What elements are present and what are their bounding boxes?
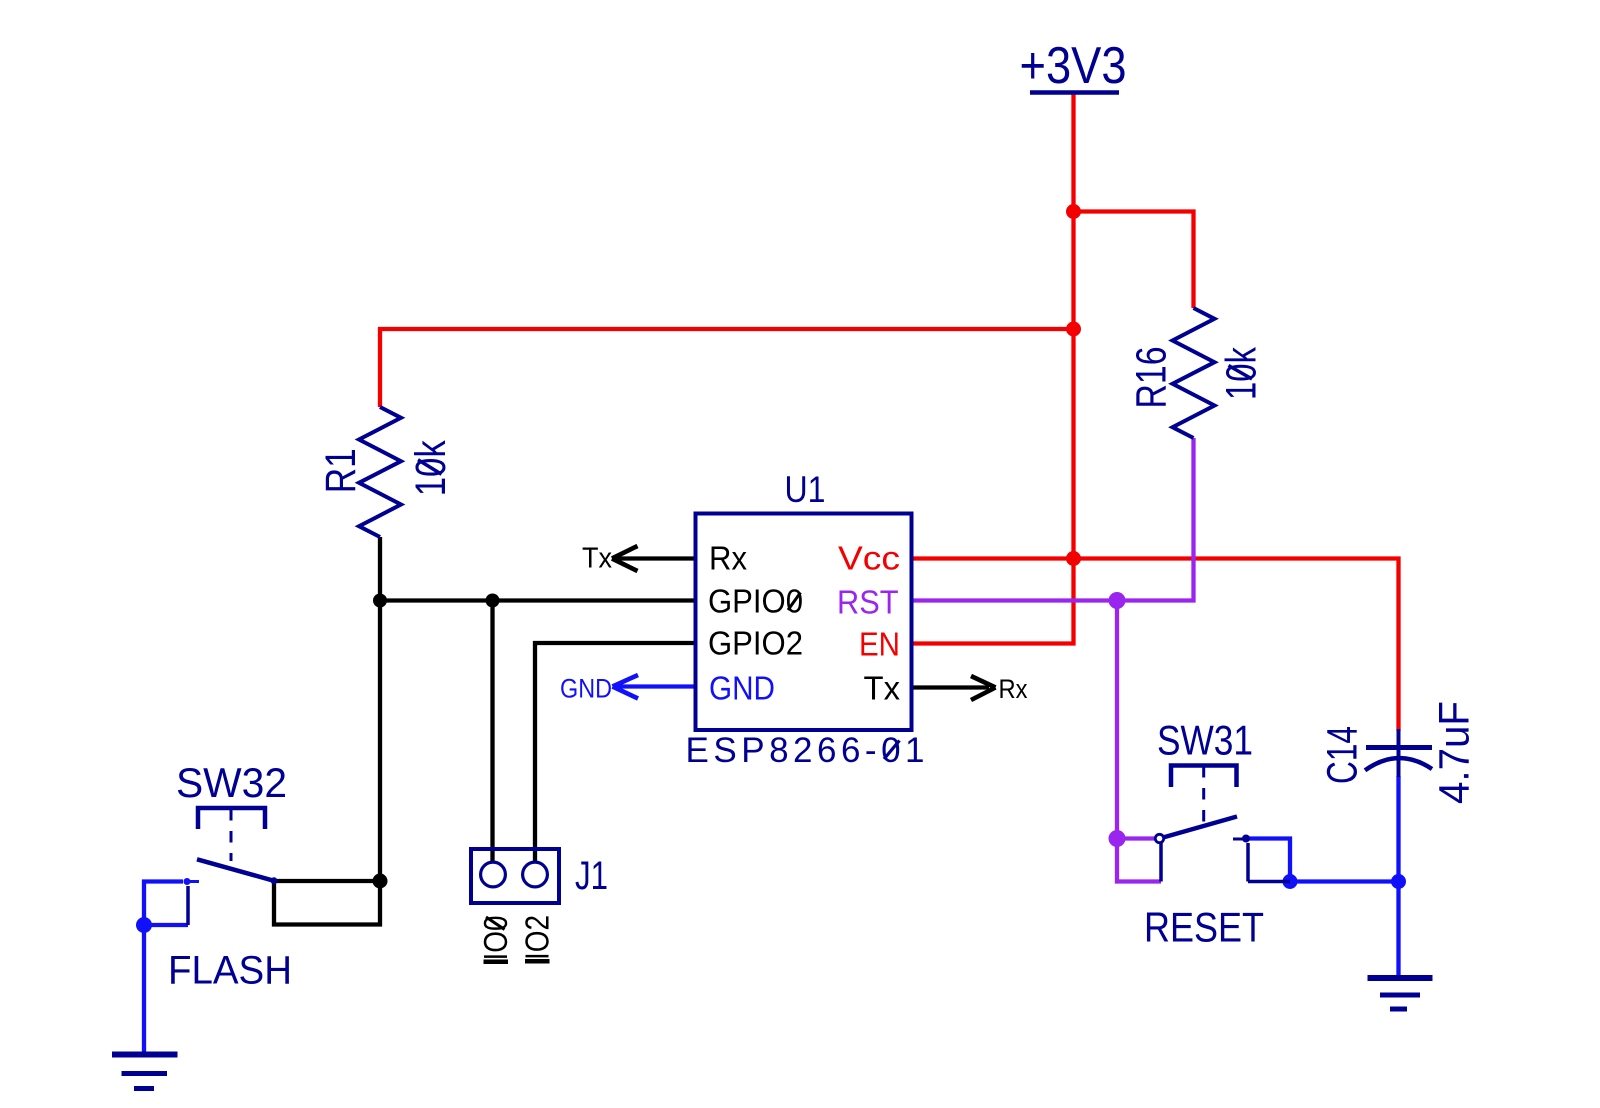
svg-text:C14: C14 (1319, 726, 1367, 784)
svg-text:GPIO2: GPIO2 (708, 625, 803, 662)
svg-text:ESP8266-01: ESP8266-01 (686, 731, 925, 770)
svg-text:IO2: IO2 (519, 915, 556, 960)
svg-text:Tx: Tx (582, 543, 612, 575)
svg-text:EN: EN (859, 626, 900, 663)
svg-text:FLASH: FLASH (168, 949, 292, 993)
svg-text:4.7uF: 4.7uF (1431, 701, 1479, 804)
svg-text:Tx: Tx (864, 670, 901, 707)
svg-text:U1: U1 (785, 469, 826, 510)
svg-text:GPIO0: GPIO0 (708, 583, 803, 620)
svg-text:+3V3: +3V3 (1020, 37, 1127, 95)
svg-text:R16: R16 (1128, 347, 1176, 409)
svg-text:GND: GND (709, 670, 775, 707)
svg-text:RESET: RESET (1144, 904, 1264, 951)
svg-text:SW32: SW32 (176, 759, 287, 806)
svg-text:RST: RST (837, 584, 899, 621)
svg-text:Vcc: Vcc (838, 540, 900, 577)
svg-text:GND: GND (560, 674, 612, 704)
svg-text:Rx: Rx (709, 540, 747, 577)
svg-text:J1: J1 (575, 854, 608, 898)
svg-text:R1: R1 (317, 448, 365, 493)
svg-text:SW31: SW31 (1157, 717, 1253, 764)
svg-text:Rx: Rx (999, 674, 1028, 704)
